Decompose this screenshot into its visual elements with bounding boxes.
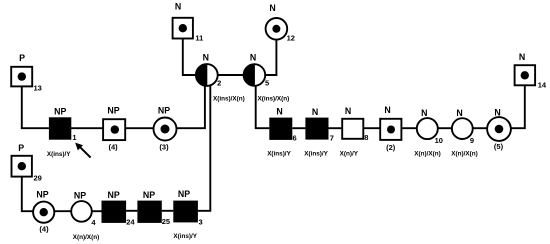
individual 2 half-filled female circle <box>196 53 221 88</box>
svg-text:X(n)/X(n): X(n)/X(n) <box>73 234 99 241</box>
svg-text:N: N <box>276 107 282 117</box>
svg-text:N: N <box>456 108 462 118</box>
individual 5 half-filled female circle <box>244 53 270 88</box>
individual 2m carrier male square <box>380 105 401 152</box>
svg-text:X(ins)/Y: X(ins)/Y <box>304 151 328 158</box>
svg-text:NP: NP <box>54 107 66 117</box>
svg-text:13: 13 <box>34 84 42 93</box>
svg-text:NP: NP <box>107 105 119 115</box>
wire 4m to 3m <box>125 127 154 129</box>
svg-text:P: P <box>19 53 25 63</box>
wire 29 down to row 3 <box>22 177 34 212</box>
svg-text:25: 25 <box>162 217 170 226</box>
genotype label X(ins)/Y of 7 <box>304 151 328 158</box>
wire 7 to 8 <box>329 127 342 129</box>
individual 11 carrier male square <box>173 2 204 43</box>
svg-text:NP: NP <box>36 190 48 200</box>
wire 5m to 14 <box>510 86 525 129</box>
individual 7 affected male square <box>305 107 334 143</box>
wire 25 to 3 <box>162 210 174 212</box>
wire 10 to 9 <box>437 127 452 129</box>
individual 5m carrier female circle <box>487 107 511 151</box>
genotype label X(ins)/Y of 1 <box>47 151 71 158</box>
wire 9 to 5m <box>472 127 488 129</box>
individual 1 affected male square (proband) <box>49 107 77 143</box>
wire 11 to circle 2 <box>183 39 196 75</box>
svg-text:P: P <box>18 143 24 153</box>
wire 13 down to row 2 <box>22 87 49 129</box>
svg-text:N: N <box>384 105 390 115</box>
individual 12 carrier female circle <box>266 3 295 43</box>
svg-text:3: 3 <box>199 217 203 226</box>
svg-text:N: N <box>421 108 427 118</box>
svg-text:X(ins)/X(n): X(ins)/X(n) <box>258 96 290 103</box>
wire 8 to 2m <box>363 127 379 129</box>
svg-text:7: 7 <box>330 134 334 143</box>
svg-text:X(n)/Y: X(n)/Y <box>340 151 359 158</box>
svg-text:24: 24 <box>126 217 135 226</box>
wire circle 5 down to square 6 <box>256 85 270 128</box>
svg-text:NP: NP <box>107 190 119 200</box>
genotype label X(ins)/X(n) of 2 <box>213 96 245 103</box>
svg-text:N: N <box>312 107 318 117</box>
wire 3m to circle 2 descent <box>176 85 205 128</box>
genotype label X(n)/X(n) of 10 <box>414 151 440 158</box>
individual 8 unaffected male square <box>342 106 368 142</box>
svg-text:(5): (5) <box>494 142 504 151</box>
svg-text:14: 14 <box>538 81 547 90</box>
individual 3 affected male square <box>173 189 202 226</box>
svg-text:X(n)/X(n): X(n)/X(n) <box>414 151 440 158</box>
svg-text:X(n)/X(n): X(n)/X(n) <box>451 151 477 158</box>
individual 9 unaffected female circle <box>452 108 474 145</box>
wire 12 to circle 5 <box>266 40 277 76</box>
svg-text:(4): (4) <box>39 225 49 234</box>
svg-text:NP: NP <box>158 105 170 115</box>
wire between circle 2 and circle 5 <box>218 74 244 76</box>
individual 10 unaffected female circle <box>417 108 443 145</box>
genotype label X(n)/X(n) of 4 <box>73 234 99 241</box>
svg-text:N: N <box>250 53 256 63</box>
svg-text:X(ins)/X(n): X(ins)/X(n) <box>213 96 245 103</box>
individual 29 carrier male square <box>12 143 42 182</box>
svg-text:(2): (2) <box>386 143 396 152</box>
wire circle 4 to 24 <box>92 210 102 212</box>
svg-text:2: 2 <box>217 79 221 88</box>
svg-text:10: 10 <box>435 136 443 145</box>
proband arrow <box>75 143 90 158</box>
svg-text:(4): (4) <box>109 142 119 151</box>
svg-text:8: 8 <box>364 133 368 142</box>
svg-text:5: 5 <box>265 79 269 88</box>
svg-text:(3): (3) <box>159 142 169 151</box>
svg-text:NP: NP <box>143 190 155 200</box>
svg-text:NP: NP <box>74 190 86 200</box>
svg-text:NP: NP <box>178 189 190 199</box>
wire 6 to 7 <box>292 127 305 129</box>
svg-text:29: 29 <box>34 173 42 182</box>
svg-text:N: N <box>269 3 275 13</box>
svg-text:N: N <box>203 53 209 63</box>
individual 6 affected male square <box>269 107 296 143</box>
svg-text:N: N <box>519 52 525 62</box>
individual 14 carrier male square <box>515 52 547 90</box>
svg-text:X(ins)/Y: X(ins)/Y <box>173 233 197 240</box>
svg-text:12: 12 <box>287 34 295 43</box>
genotype label X(n)/X(n) of 9 <box>451 151 477 158</box>
individual 4b carrier female circle <box>33 190 54 234</box>
genotype label X(ins)/Y of 3 <box>173 233 197 240</box>
wire 2m to 10 <box>401 127 417 129</box>
genotype label X(n)/Y of 8 <box>340 151 359 158</box>
svg-text:X(ins)/Y: X(ins)/Y <box>267 151 291 158</box>
wire 24 to 25 <box>126 210 137 212</box>
svg-text:11: 11 <box>195 34 203 43</box>
genotype label X(ins)/Y of 6 <box>267 151 291 158</box>
genotype label X(ins)/X(n) of 5 <box>258 96 290 103</box>
svg-text:1: 1 <box>72 133 76 142</box>
individual 4m carrier male square <box>103 105 125 151</box>
svg-text:X(ins)/Y: X(ins)/Y <box>47 151 71 158</box>
svg-text:N: N <box>175 2 181 12</box>
individual 4 unaffected female circle <box>71 190 96 227</box>
svg-text:N: N <box>494 107 500 117</box>
individual 24 affected male square <box>102 190 136 227</box>
svg-text:9: 9 <box>470 136 474 145</box>
individual 3m carrier female circle <box>154 105 177 151</box>
individual 13 carrier male square <box>11 53 42 93</box>
wire 1 to 4m <box>71 127 104 129</box>
svg-text:N: N <box>345 106 351 116</box>
individual 25 affected male square <box>137 190 170 226</box>
wire circle 2 down to square 3 <box>198 85 210 211</box>
svg-text:6: 6 <box>293 134 297 143</box>
wire 4b to circle 4 <box>54 210 72 212</box>
